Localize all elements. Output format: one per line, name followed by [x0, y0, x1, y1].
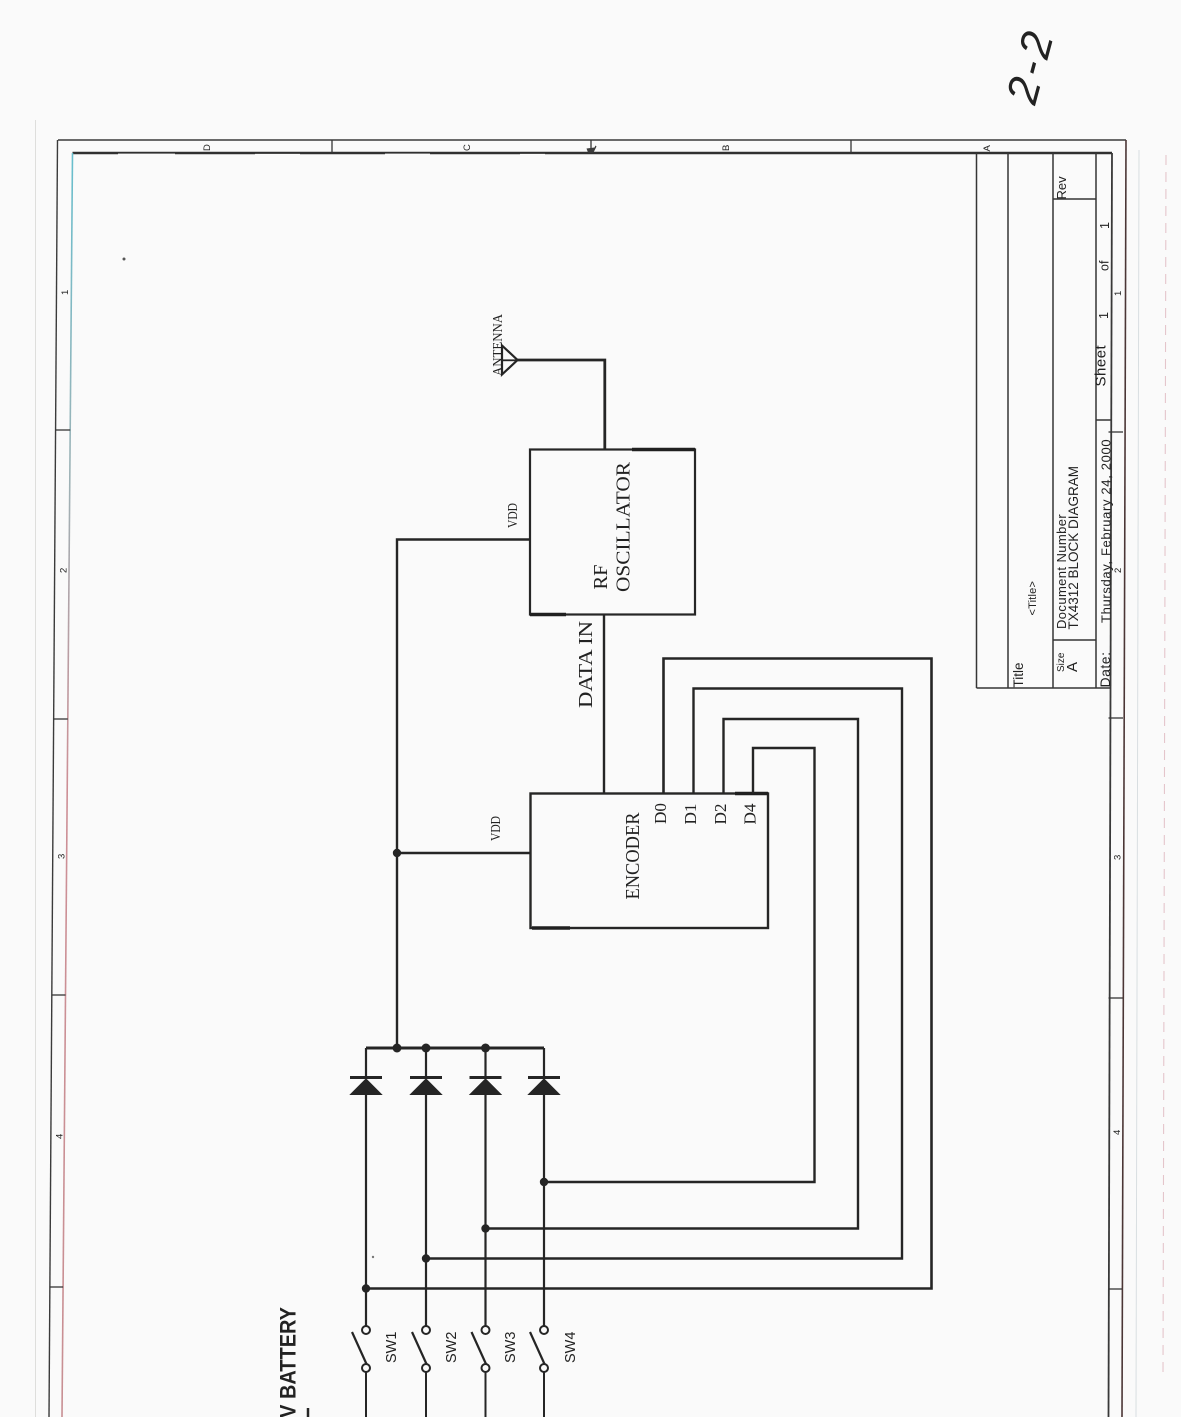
- wire D1 to SW2 net: [426, 689, 902, 1259]
- svg-text:VDD: VDD: [505, 503, 520, 528]
- label RF OSCILLATOR: [590, 462, 635, 592]
- wire DATA IN: [603, 615, 605, 794]
- svg-text:VDD: VDD: [488, 816, 503, 841]
- switch SW4: [530, 1326, 548, 1417]
- svg-text:D1: D1: [681, 804, 700, 825]
- svg-text:of: of: [1098, 260, 1112, 271]
- svg-text:A: A: [1064, 662, 1081, 672]
- svg-text:4: 4: [1112, 1130, 1123, 1135]
- svg-text:1: 1: [1098, 222, 1112, 229]
- scan smudges on RF box border: [632, 448, 695, 451]
- zone ticks right: [1109, 432, 1124, 1289]
- svg-text:Date:: Date:: [1097, 652, 1113, 688]
- svg-text:B: B: [721, 145, 732, 151]
- svg-text:SW3: SW3: [503, 1332, 519, 1363]
- svg-text:D: D: [202, 144, 213, 151]
- title block frame: [977, 153, 1112, 688]
- wire VDD to RF oscillator: [397, 540, 530, 1049]
- junction bus/diode3: [481, 1044, 490, 1053]
- svg-text:ENCODER: ENCODER: [622, 812, 644, 900]
- ink blob on C/B divider tick: [587, 146, 597, 153]
- op block RF OSCILLATOR U2: [530, 450, 695, 615]
- svg-text:Title: Title: [1011, 662, 1026, 687]
- faint blue scanner line right: [1136, 150, 1139, 1417]
- diode D8 column SW4: [528, 1048, 560, 1326]
- zone ticks top: [332, 140, 851, 153]
- wire D4 to SW4 net: [544, 748, 815, 1182]
- svg-text:3: 3: [57, 854, 68, 859]
- svg-text:ANTENNA: ANTENNA: [491, 313, 506, 376]
- junction VDD rail: [393, 849, 401, 857]
- diode D5 column SW1: [350, 1048, 382, 1326]
- wire D2 to SW3 net: [486, 719, 859, 1229]
- wire VDD to encoder: [397, 852, 531, 854]
- junction D0/SW1: [362, 1284, 370, 1292]
- svg-text:C: C: [462, 144, 473, 151]
- switch SW3: [472, 1326, 490, 1417]
- svg-text:Sheet: Sheet: [1093, 344, 1110, 386]
- svg-text:OSCILLATOR: OSCILLATOR: [613, 462, 635, 592]
- svg-text:D2: D2: [711, 804, 730, 825]
- block ENCODER U1: [531, 794, 769, 929]
- diode D7 column SW3: [470, 1048, 502, 1326]
- svg-text:1: 1: [1097, 312, 1111, 319]
- svg-text:D0: D0: [651, 803, 670, 824]
- switch SW2: [412, 1326, 430, 1417]
- svg-text:<Title>: <Title>: [1027, 581, 1039, 616]
- border inner frame: [62, 153, 1112, 1417]
- junction bus/diode2: [422, 1044, 431, 1053]
- junction D1/SW2: [422, 1254, 430, 1262]
- wire battery stub: [307, 1408, 310, 1417]
- svg-text:SW2: SW2: [444, 1332, 460, 1363]
- svg-text:2: 2: [59, 568, 70, 573]
- svg-text:3: 3: [1113, 855, 1124, 860]
- antenna ANT1: [502, 346, 518, 375]
- junction bus/rail: [393, 1044, 402, 1053]
- svg-text:2: 2: [1113, 568, 1124, 573]
- wire VDD bus over diodes: [366, 1047, 544, 1050]
- svg-text:SW4: SW4: [563, 1332, 579, 1363]
- svg-text:3V BATTERY: 3V BATTERY: [276, 1307, 301, 1417]
- pink dashed scanner line right: [1163, 155, 1166, 1375]
- svg-text:RF: RF: [590, 564, 612, 589]
- diode D6 column SW2: [410, 1048, 442, 1326]
- svg-text:4: 4: [55, 1134, 66, 1139]
- svg-text:TX4312 BLOCK DIAGRAM: TX4312 BLOCK DIAGRAM: [1066, 466, 1081, 630]
- scan speck: [372, 1256, 374, 1258]
- switch SW1: [352, 1326, 370, 1417]
- junction D4/SW4: [540, 1178, 548, 1186]
- svg-text:SW1: SW1: [384, 1332, 400, 1363]
- svg-text:1: 1: [1113, 291, 1124, 296]
- zone labels top D C B A: [202, 144, 993, 152]
- svg-text:DATA IN: DATA IN: [575, 621, 597, 708]
- junction D2/SW3: [481, 1224, 489, 1232]
- svg-text:2-2: 2-2: [997, 23, 1064, 110]
- erosion on inner top border: [118, 153, 545, 155]
- zone labels left 1 2 3 4: [55, 290, 72, 1139]
- page edge artifact line: [35, 120, 37, 1417]
- title block texts: [1011, 176, 1114, 688]
- zone labels right 1 2 3 4: [1112, 291, 1124, 1135]
- zone ticks left: [50, 430, 70, 1287]
- svg-text:1: 1: [60, 290, 71, 295]
- scan speck: [123, 258, 126, 261]
- handwritten mark 2-2 top right: [997, 23, 1064, 110]
- svg-text:D4: D4: [741, 803, 760, 825]
- wire antenna to RF oscillator: [516, 360, 605, 450]
- scan smudges on encoder box border: [735, 792, 768, 795]
- svg-text:Rev: Rev: [1054, 176, 1069, 200]
- svg-text:Thursday, February 24, 2000: Thursday, February 24, 2000: [1099, 439, 1114, 623]
- svg-text:A: A: [982, 145, 993, 152]
- wire D0 to SW1 net: [366, 659, 932, 1289]
